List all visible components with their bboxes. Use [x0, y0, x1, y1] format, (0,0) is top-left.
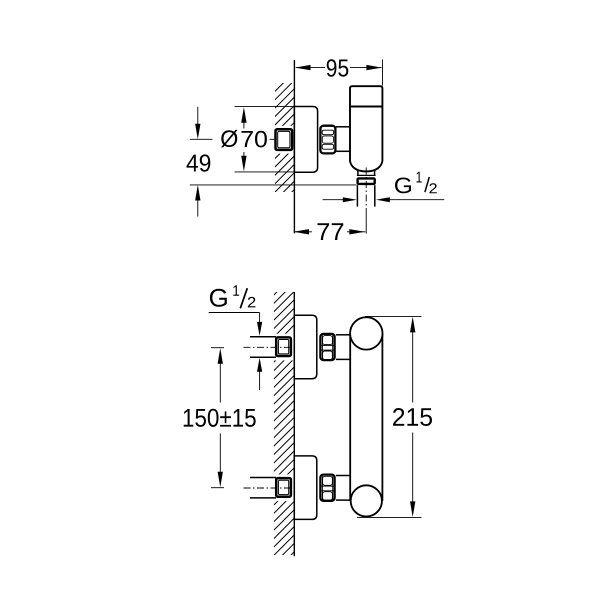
- bottom union nut (bottom view): [320, 475, 334, 501]
- bottom nut facet horizontals: [322, 485, 334, 487]
- bottom connector nut-to-body (bottom view): [336, 475, 350, 477]
- dimension text 77: [318, 223, 344, 240]
- body bar (bottom view): [349, 333, 351, 501]
- dimension text 215: [393, 408, 432, 426]
- dimension text 70: [242, 131, 267, 148]
- escutcheon flange (top view): [294, 107, 317, 173]
- valve body (top view): [350, 86, 382, 171]
- wall clearance around bottom-view top inlet: [272, 334, 294, 361]
- top inlet pipe (bottom view): [250, 336, 276, 338]
- union nut (top view): [320, 126, 335, 154]
- label G (bottom view): [210, 289, 227, 307]
- dimension text 49: [187, 154, 211, 171]
- label G 1/2 leader (top view): [323, 197, 445, 202]
- fraction denominator 2 (bottom view): [248, 297, 256, 308]
- outlet neck (top view): [357, 170, 359, 176]
- wall face line (top view): [293, 60, 295, 233]
- push-button cap separator line (top view): [350, 106, 382, 108]
- dimension text 150±15: [184, 409, 256, 427]
- wall clearance around bottom-view bottom inlet: [272, 474, 294, 501]
- top escutcheon flange (bottom view): [294, 315, 317, 379]
- outlet centerline extension to 77 dim: [365, 209, 367, 234]
- top nut facet horizontals: [322, 344, 334, 346]
- dimension text 95: [327, 59, 349, 76]
- fraction slash (top view label): [425, 177, 429, 192]
- inlet centerline stub (top view): [270, 138, 275, 140]
- bottom escutcheon flange (bottom view): [294, 456, 317, 520]
- top nut lower facet cell: [323, 351, 333, 360]
- connector nut-to-body (top view): [336, 126, 350, 128]
- top inlet centerline: [244, 346, 297, 348]
- fraction denominator 2 (top view): [429, 183, 436, 193]
- dimension 150±15 lines: [211, 348, 224, 488]
- bottom inlet pipe (bottom view): [250, 477, 276, 479]
- body top circle (bottom view): [350, 317, 382, 349]
- bottom inlet square inner line: [278, 480, 288, 494]
- dimension 77 lines: [293, 229, 365, 234]
- bottom nut facet verticals: [321, 476, 323, 500]
- inlet square fitting (top view): [276, 129, 293, 150]
- outlet pipe (top view): [356, 185, 358, 206]
- fraction slash (bottom view label): [240, 288, 247, 308]
- inlet square inner line (top view): [278, 131, 290, 147]
- top inlet square fitting (bottom view): [276, 337, 291, 356]
- top nut upper facet cell: [323, 336, 333, 345]
- diameter symbol of Ø70: [221, 130, 238, 148]
- bottom nut lower facet cell: [323, 492, 333, 501]
- wall face line (bottom view): [293, 292, 295, 556]
- bottom inlet centerline: [244, 487, 297, 489]
- dimension 49 lines: [190, 107, 357, 217]
- top connector nut-to-body (bottom view): [336, 334, 350, 336]
- fraction numerator 1 (top view): [417, 172, 422, 183]
- top union nut (bottom view): [320, 334, 334, 360]
- outlet collar top face line (top view): [357, 174, 376, 176]
- dimension 215 lines: [357, 316, 422, 517]
- bottom nut upper facet cell: [323, 476, 333, 485]
- outlet collar G1/2 (top view): [358, 178, 375, 184]
- top nut facet verticals: [321, 335, 323, 359]
- nut middle facet (top view): [322, 136, 333, 143]
- dimension 95 lines: [295, 60, 383, 86]
- fraction numerator 1 (bottom view): [233, 285, 239, 296]
- outlet centerline (top view): [365, 168, 367, 210]
- wall hatching (bottom view): [274, 275, 295, 573]
- top inlet square inner line: [278, 340, 288, 354]
- body bottom circle (bottom view): [351, 485, 382, 516]
- bottom inlet square fitting (bottom view): [276, 478, 291, 497]
- dimension Ø70 lines: [235, 107, 295, 172]
- label G (top view): [395, 178, 411, 194]
- wall clearance around top-view inlet square: [272, 126, 295, 154]
- leader line G1/2 (bottom view): [209, 313, 263, 391]
- nut facet band upper (top view): [322, 130, 333, 135]
- wall hatching (top view): [275, 64, 295, 210]
- nut facet band lower (top view): [322, 144, 333, 149]
